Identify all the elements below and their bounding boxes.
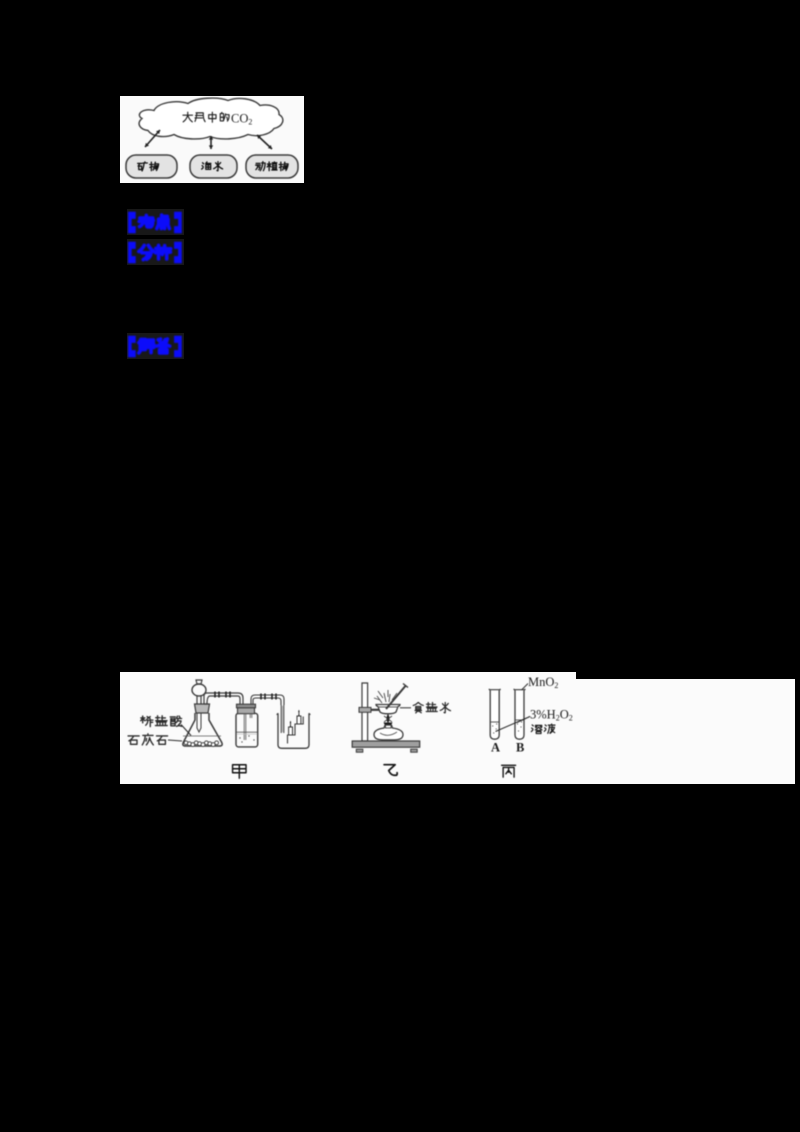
svg-text:3%H2O2: 3%H2O2 [530,708,573,723]
svg-text:B: B [516,741,524,755]
svg-text:MnO2: MnO2 [528,675,558,690]
svg-text:A: A [491,741,500,755]
